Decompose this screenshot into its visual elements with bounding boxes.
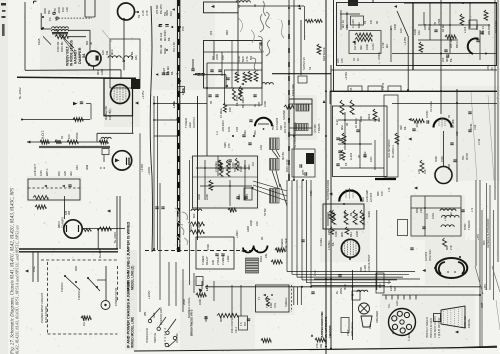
svg-text:SYNC: SYNC xyxy=(263,208,267,216)
svg-text:WIRED MODEL LINE: WIRED MODEL LINE xyxy=(131,317,135,348)
svg-text:220K: 220K xyxy=(205,194,209,200)
svg-text:C1B: C1B xyxy=(235,127,239,132)
svg-text:K5: K5 xyxy=(344,162,348,166)
svg-text:05: 05 xyxy=(433,22,437,25)
svg-text:MX: MX xyxy=(449,212,453,216)
svg-text:150: 150 xyxy=(181,26,185,31)
svg-text:183: 183 xyxy=(417,30,421,35)
svg-text:MM: MM xyxy=(340,125,344,130)
svg-text:BIL: BIL xyxy=(449,58,453,62)
svg-text:1N34A: 1N34A xyxy=(319,238,323,246)
svg-text:150: 150 xyxy=(221,55,225,60)
svg-text:SU: SU xyxy=(387,280,391,284)
svg-text:100K: 100K xyxy=(198,299,202,305)
svg-text:TRANS: TRANS xyxy=(317,123,321,133)
svg-text:SOUND: SOUND xyxy=(282,110,286,120)
svg-text:0490: 0490 xyxy=(310,190,313,196)
svg-text:ESK: ESK xyxy=(269,303,273,308)
svg-text:01: 01 xyxy=(352,58,356,61)
svg-text:SUPPRESSOR: SUPPRESSOR xyxy=(326,180,330,200)
svg-text:10K 78(1): 10K 78(1) xyxy=(108,108,112,120)
svg-text:1HO4: 1HO4 xyxy=(349,152,353,160)
svg-text:8211: 8211 xyxy=(357,22,361,28)
svg-text:1K: 1K xyxy=(356,58,360,61)
svg-text:MFC: MFC xyxy=(110,49,114,55)
svg-text:B+: B+ xyxy=(335,290,339,294)
svg-text:BIL: BIL xyxy=(345,23,349,28)
svg-text:SYNC SEP: SYNC SEP xyxy=(284,238,288,252)
svg-text:S2: S2 xyxy=(308,66,312,70)
svg-text:10%: 10% xyxy=(227,126,231,132)
svg-text:36: 36 xyxy=(345,123,349,126)
svg-text:+15: +15 xyxy=(443,216,447,221)
svg-text:1HO: 1HO xyxy=(335,119,339,125)
svg-text:100K: 100K xyxy=(447,164,451,170)
svg-text:+45V: +45V xyxy=(484,284,487,290)
svg-text:C544: C544 xyxy=(437,18,441,25)
svg-text:15K CONTRAST: 15K CONTRAST xyxy=(230,313,234,333)
svg-text:1/2 6AW8A: 1/2 6AW8A xyxy=(280,238,284,252)
svg-text:5%: 5% xyxy=(221,168,225,172)
svg-text:56A: 56A xyxy=(361,197,365,202)
svg-text:27K: 27K xyxy=(449,245,453,250)
svg-text:54: 54 xyxy=(87,62,91,66)
svg-text:05A: 05A xyxy=(253,130,257,135)
svg-text:.0047: .0047 xyxy=(415,121,419,128)
svg-text:1.5: 1.5 xyxy=(239,322,243,326)
svg-text:4.5MC: 4.5MC xyxy=(425,110,429,118)
svg-text:MCD: MCD xyxy=(343,284,347,290)
svg-text:SPEAKER: SPEAKER xyxy=(375,311,379,323)
svg-text:150K: 150K xyxy=(206,244,210,250)
svg-text:10K: 10K xyxy=(255,221,259,226)
svg-text:YEL: YEL xyxy=(388,303,391,308)
svg-text:UHF: UHF xyxy=(152,312,156,318)
svg-text:PD 51: PD 51 xyxy=(381,82,385,90)
svg-text:C 1344: C 1344 xyxy=(351,19,355,28)
svg-text:115V: 115V xyxy=(39,170,43,176)
svg-text:B+ 260V: B+ 260V xyxy=(18,87,22,99)
svg-text:ON-OFF: ON-OFF xyxy=(175,333,179,343)
svg-text:260V: 260V xyxy=(339,288,343,294)
svg-text:VOICE: VOICE xyxy=(377,52,381,60)
svg-text:83 NH: 83 NH xyxy=(441,24,445,32)
svg-text:TRANS: TRANS xyxy=(467,220,471,230)
svg-text:RETRACE: RETRACE xyxy=(322,47,326,61)
svg-text:COIL: COIL xyxy=(431,212,435,219)
svg-text:1.5K: 1.5K xyxy=(381,42,385,48)
svg-text:D5C: D5C xyxy=(486,65,490,70)
svg-text:SHIELD: SHIELD xyxy=(284,298,288,307)
svg-text:.039 600V: .039 600V xyxy=(221,120,225,132)
svg-text:B+ 260V: B+ 260V xyxy=(113,232,117,243)
svg-text:60: 60 xyxy=(253,3,257,7)
svg-text:L71: L71 xyxy=(470,207,474,212)
svg-text:470: 470 xyxy=(243,195,247,200)
svg-text:1850: 1850 xyxy=(423,24,427,30)
svg-text:C2 13HH: C2 13HH xyxy=(429,101,433,112)
svg-text:05: 05 xyxy=(375,21,379,24)
svg-text:47K: 47K xyxy=(227,143,231,148)
svg-text:30-14503-1: 30-14503-1 xyxy=(392,145,395,158)
svg-text:20K 1M: 20K 1M xyxy=(449,38,453,48)
svg-text:H.O.T.: H.O.T. xyxy=(41,130,45,139)
svg-text:1000 MX: 1000 MX xyxy=(56,41,60,52)
svg-text:OC6L: OC6L xyxy=(469,123,473,130)
svg-text:BRT: BRT xyxy=(393,285,397,291)
svg-text:MX: MX xyxy=(243,130,247,134)
svg-text:47K: 47K xyxy=(380,191,384,196)
svg-text:470: 470 xyxy=(355,213,359,218)
svg-text:B+260V: B+260V xyxy=(98,248,102,258)
svg-text:200K: 200K xyxy=(182,299,186,305)
svg-text:6BK4: 6BK4 xyxy=(57,221,61,228)
svg-text:SUPPLY: SUPPLY xyxy=(192,117,196,128)
svg-text:OSC 52C: OSC 52C xyxy=(428,249,432,261)
svg-text:WIP A: WIP A xyxy=(45,168,49,176)
svg-text:40K: 40K xyxy=(57,171,61,176)
svg-text:2.2 MEG: 2.2 MEG xyxy=(214,161,218,172)
svg-text:LINE: LINE xyxy=(313,270,317,276)
svg-text:1.5MEG: 1.5MEG xyxy=(327,240,331,250)
svg-text:BIL: BIL xyxy=(403,125,407,130)
svg-text:2W: 2W xyxy=(319,344,323,348)
svg-text:J (3,4,6) OR BLST: J (3,4,6) OR BLST xyxy=(438,317,441,338)
svg-text:LINE: LINE xyxy=(172,101,176,108)
svg-text:3300: 3300 xyxy=(197,194,201,200)
svg-text:.047: .047 xyxy=(257,101,261,107)
svg-text:250K: 250K xyxy=(75,132,79,139)
svg-text:6M: 6M xyxy=(243,322,247,326)
svg-text:C5A: C5A xyxy=(259,145,263,150)
svg-text:56K: 56K xyxy=(376,191,380,196)
svg-text:H25: H25 xyxy=(63,171,67,176)
svg-text:C-ROD: C-ROD xyxy=(407,332,411,341)
svg-text:383-5562: 383-5562 xyxy=(487,23,491,35)
svg-text:190A: 190A xyxy=(37,38,41,45)
svg-text:46: 46 xyxy=(89,41,93,45)
svg-text:PHONO INPUT CIRCUIT: PHONO INPUT CIRCUIT xyxy=(40,292,44,323)
svg-text:818: 818 xyxy=(377,117,381,122)
svg-text:MX: MX xyxy=(249,56,253,60)
svg-text:6534: 6534 xyxy=(259,256,263,262)
svg-text:ELM: ELM xyxy=(389,286,393,291)
svg-text:MM: MM xyxy=(225,30,229,35)
svg-text:MODEL LINE (2): MODEL LINE (2) xyxy=(131,266,135,290)
svg-text:TUNER: TUNER xyxy=(201,256,205,265)
svg-text:1500: 1500 xyxy=(440,156,444,162)
svg-text:COR: COR xyxy=(263,101,267,107)
svg-text:P4: P4 xyxy=(363,20,367,24)
svg-text:8411: 8411 xyxy=(475,24,479,30)
svg-text:5% 1W: 5% 1W xyxy=(197,224,201,233)
svg-text:3B1: 3B1 xyxy=(143,311,147,316)
svg-text:C143: C143 xyxy=(363,151,367,158)
svg-text:5% 1W: 5% 1W xyxy=(233,163,237,172)
svg-text:3500: 3500 xyxy=(204,316,208,322)
svg-text:WHT: WHT xyxy=(302,169,305,175)
svg-text:27K: 27K xyxy=(315,343,319,348)
svg-text:55B: 55B xyxy=(359,267,363,272)
svg-text:.047: .047 xyxy=(243,164,247,170)
svg-text:100: 100 xyxy=(399,28,403,33)
svg-text:CLAMPS: CLAMPS xyxy=(61,217,65,228)
svg-text:RG 100K: RG 100K xyxy=(82,315,86,326)
svg-text:10 MEG: 10 MEG xyxy=(354,118,358,128)
svg-text:LIN MX: LIN MX xyxy=(166,66,170,75)
svg-text:05: 05 xyxy=(209,101,213,104)
svg-text:1/2 6T8: 1/2 6T8 xyxy=(369,192,373,202)
svg-text:MX BELOW: MX BELOW xyxy=(104,105,108,120)
svg-text:.0039: .0039 xyxy=(367,211,371,218)
svg-text:350V BIL: 350V BIL xyxy=(60,41,64,52)
svg-text:A7K: A7K xyxy=(417,169,421,174)
svg-text:6-105: 6-105 xyxy=(363,265,367,272)
svg-text:100K: 100K xyxy=(334,231,338,237)
svg-text:R6L: R6L xyxy=(264,253,268,258)
svg-text:L35: L35 xyxy=(340,58,344,63)
svg-text:BIL: BIL xyxy=(170,70,174,75)
svg-text:383: 383 xyxy=(69,171,73,176)
svg-text:0.221: 0.221 xyxy=(371,43,375,50)
svg-text:05A 1M: 05A 1M xyxy=(159,44,163,54)
svg-text:6DT8: 6DT8 xyxy=(465,153,469,160)
svg-text:KINE: KINE xyxy=(391,328,395,334)
svg-text:DELAY: DELAY xyxy=(205,256,209,265)
svg-text:MX: MX xyxy=(385,44,389,48)
svg-text:MX BIL: MX BIL xyxy=(281,151,285,160)
svg-text:44: 44 xyxy=(373,119,377,122)
svg-text:CRT: CRT xyxy=(480,302,484,308)
svg-text:MFC: MFC xyxy=(96,69,100,75)
svg-text:ADJ: ADJ xyxy=(419,207,423,213)
svg-text:270UH: 270UH xyxy=(216,257,220,265)
svg-text:D5C 15: D5C 15 xyxy=(481,25,485,35)
svg-text:1/2 6T8: 1/2 6T8 xyxy=(424,251,428,261)
svg-text:+415V: +415V xyxy=(403,37,407,45)
svg-text:X022: X022 xyxy=(367,113,371,120)
svg-text:OUTPUT: OUTPUT xyxy=(283,121,287,133)
svg-text:8L43 & 8L43U: 8L43 & 8L43U xyxy=(44,306,48,323)
svg-text:MBL: MBL xyxy=(340,231,344,237)
svg-text:2400: 2400 xyxy=(215,53,219,60)
svg-text:GRN: GRN xyxy=(396,300,399,306)
svg-text:+260V: +260V xyxy=(235,230,239,238)
svg-text:A1: A1 xyxy=(60,135,64,139)
svg-text:680: 680 xyxy=(445,245,449,250)
svg-text:DET VOLT: DET VOLT xyxy=(494,20,498,33)
svg-text:LS1: LS1 xyxy=(368,324,372,329)
svg-text:270K: 270K xyxy=(332,212,336,218)
svg-text:L2D1: L2D1 xyxy=(100,68,104,75)
svg-text:P4: P4 xyxy=(55,17,59,21)
svg-text:200K: 200K xyxy=(249,220,253,226)
svg-text:1M: 1M xyxy=(252,163,255,166)
svg-text:10K: 10K xyxy=(423,169,427,174)
svg-text:55C: 55C xyxy=(276,247,280,252)
svg-text:L76: L76 xyxy=(387,187,391,192)
svg-text:2.2MEG: 2.2MEG xyxy=(221,255,225,265)
svg-text:3300: 3300 xyxy=(343,212,347,218)
svg-text:1000: 1000 xyxy=(355,231,359,237)
svg-text:100K: 100K xyxy=(359,116,363,122)
svg-text:PINS 6,9,10 4,6,8: PINS 6,9,10 4,6,8 xyxy=(430,318,433,338)
svg-text:+415V: +415V xyxy=(344,72,348,80)
svg-text:813: 813 xyxy=(169,11,173,16)
svg-text:KC: KC xyxy=(361,212,365,216)
svg-text:400V: 400V xyxy=(163,48,167,54)
svg-text:53: 53 xyxy=(137,14,141,18)
svg-text:SWITCH: SWITCH xyxy=(153,333,157,343)
svg-text:100: 100 xyxy=(101,50,105,55)
svg-text:NOTES 30: NOTES 30 xyxy=(302,57,306,70)
svg-text:YEL: YEL xyxy=(265,303,269,308)
svg-text:4800: 4800 xyxy=(338,154,342,160)
svg-text:BILL: BILL xyxy=(349,231,353,237)
svg-text:SMS: SMS xyxy=(223,142,227,148)
svg-text:BIL: BIL xyxy=(47,9,51,14)
svg-text:B4FC: B4FC xyxy=(455,41,459,48)
svg-text:LINE: LINE xyxy=(205,284,209,291)
svg-text:10%: 10% xyxy=(369,156,373,162)
svg-text:D1: D1 xyxy=(260,236,264,240)
svg-text:100K: 100K xyxy=(365,44,369,50)
svg-text:RCA NETWORK: RCA NETWORK xyxy=(388,139,391,158)
svg-text:NET WORK 30(4/9)31-1: NET WORK 30(4/9)31-1 xyxy=(294,121,297,148)
svg-text:E81: E81 xyxy=(134,55,138,60)
svg-text:320V (13.1): 320V (13.1) xyxy=(350,322,354,336)
svg-text:FOR BEST FOCUS: FOR BEST FOCUS xyxy=(434,316,437,338)
svg-text:A15: A15 xyxy=(455,131,459,136)
svg-text:VR-1: VR-1 xyxy=(234,327,238,333)
svg-text:L3R2: L3R2 xyxy=(226,255,230,262)
svg-text:KD: KD xyxy=(369,20,373,24)
svg-text:C744: C744 xyxy=(477,138,481,145)
svg-text:BIL: BIL xyxy=(167,36,171,41)
svg-text:1N5: 1N5 xyxy=(211,260,215,265)
svg-text:BIL 470K: BIL 470K xyxy=(235,95,239,106)
svg-text:BRIGHTNESS VR-3: BRIGHTNESS VR-3 xyxy=(190,309,194,336)
svg-text:MX 400V: MX 400V xyxy=(163,30,167,41)
svg-text:PHONO: PHONO xyxy=(77,290,81,300)
svg-text:MX 1K: MX 1K xyxy=(341,20,345,28)
svg-text:4.7K: 4.7K xyxy=(145,10,149,16)
svg-text:5600: 5600 xyxy=(219,316,223,322)
svg-text:483: 483 xyxy=(68,210,71,215)
svg-text:390: 390 xyxy=(399,125,403,130)
svg-text:05: 05 xyxy=(357,155,361,158)
svg-text:5% 1.5K: 5% 1.5K xyxy=(172,42,176,52)
svg-text:56C: 56C xyxy=(482,240,486,245)
svg-text:115: 115 xyxy=(441,57,445,62)
svg-text:+45V: +45V xyxy=(476,234,480,240)
svg-text:100: 100 xyxy=(67,134,71,139)
svg-text:CHASSIS: CHASSIS xyxy=(328,325,332,338)
svg-text:LTC: LTC xyxy=(378,283,382,288)
svg-text:(PHONO) DIST: (PHONO) DIST xyxy=(159,307,163,325)
svg-text:VOL: VOL xyxy=(273,302,277,308)
svg-text:0039: 0039 xyxy=(434,156,438,162)
svg-text:BIL: BIL xyxy=(331,242,335,246)
svg-text:1.5 MEG: 1.5 MEG xyxy=(228,161,232,172)
svg-text:TAKEOFF: TAKEOFF xyxy=(291,83,295,96)
svg-text:450: 450 xyxy=(415,208,419,213)
svg-text:1M 390: 1M 390 xyxy=(353,41,357,50)
svg-text:47 MEG: 47 MEG xyxy=(219,108,223,118)
svg-text:105K: 105K xyxy=(327,229,331,235)
svg-text:30M: 30M xyxy=(85,164,89,170)
svg-text:CHD: CHD xyxy=(413,29,417,35)
svg-text:1940/4+: 1940/4+ xyxy=(467,318,471,328)
svg-text:600V COR: 600V COR xyxy=(285,159,289,172)
svg-text:MX BIL: MX BIL xyxy=(130,51,134,60)
svg-text:10K: 10K xyxy=(327,213,331,218)
svg-text:INTERLOCK: INTERLOCK xyxy=(145,328,149,343)
svg-text:LEM: LEM xyxy=(237,194,241,200)
svg-text:+415V: +415V xyxy=(141,90,145,99)
svg-text:19: 19 xyxy=(237,4,241,8)
svg-text:RETRACE SUPPRESSION: RETRACE SUPPRESSION xyxy=(487,218,490,248)
svg-text:185: 185 xyxy=(389,25,393,30)
svg-text:4.5S: 4.5S xyxy=(425,213,429,219)
svg-text:300K: 300K xyxy=(248,164,251,170)
svg-text:LINE: LINE xyxy=(181,88,185,95)
svg-text:1B3: 1B3 xyxy=(75,165,79,170)
svg-text:L35: L35 xyxy=(349,87,353,92)
svg-text:BIL 3900: BIL 3900 xyxy=(241,97,245,108)
svg-text:HOR BLK TWEEN: HOR BLK TWEEN xyxy=(426,317,429,338)
svg-text:1500: 1500 xyxy=(393,24,397,30)
svg-text:1.2: 1.2 xyxy=(215,131,219,135)
svg-text:PHONO: PHONO xyxy=(60,282,64,292)
svg-text:1K: 1K xyxy=(427,27,431,30)
svg-text:DOTH OK: DOTH OK xyxy=(463,316,467,328)
svg-text:CO4: CO4 xyxy=(473,124,477,130)
svg-text:W3: W3 xyxy=(209,30,213,35)
svg-text:+260V: +260V xyxy=(147,290,151,299)
svg-text:C06: C06 xyxy=(324,339,328,344)
svg-text:13E: 13E xyxy=(121,57,125,62)
svg-text:POWER INPUT: POWER INPUT xyxy=(114,287,118,306)
svg-text:+260V: +260V xyxy=(147,167,151,175)
svg-text:L2C: L2C xyxy=(65,7,69,12)
svg-text:BIL: BIL xyxy=(349,211,353,216)
svg-text:LINE: LINE xyxy=(32,266,36,272)
svg-text:1W: 1W xyxy=(105,51,109,55)
svg-text:9100: 9100 xyxy=(239,166,243,172)
svg-text:+415V: +415V xyxy=(140,164,144,172)
svg-text:CKLY: CKLY xyxy=(346,329,350,336)
svg-text:300B: 300B xyxy=(220,162,223,168)
svg-text:390: 390 xyxy=(359,45,363,50)
svg-text:01: 01 xyxy=(253,104,257,107)
svg-text:VERT: VERT xyxy=(162,68,166,75)
svg-text:600: 600 xyxy=(192,213,196,218)
svg-text:P4: P4 xyxy=(48,17,52,21)
svg-text:06 133: 06 133 xyxy=(159,32,163,41)
svg-text:MFC: MFC xyxy=(445,56,449,62)
svg-text:ACB OUT: ACB OUT xyxy=(33,164,37,176)
svg-text:AUD OUTPUT: AUD OUTPUT xyxy=(367,254,371,272)
svg-text:AUD AMP: AUD AMP xyxy=(365,190,369,202)
svg-text:L1A4: L1A4 xyxy=(463,26,467,33)
svg-text:+B 48K: +B 48K xyxy=(451,119,455,128)
svg-text:15K: 15K xyxy=(228,107,232,112)
